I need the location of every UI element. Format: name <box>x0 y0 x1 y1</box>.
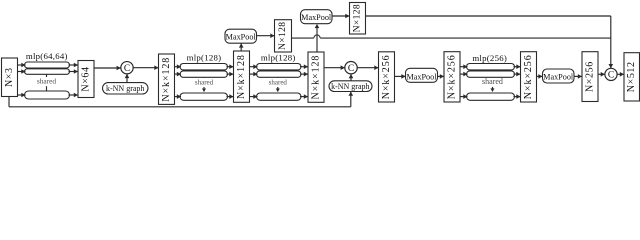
svg-text:C: C <box>608 71 614 81</box>
svg-text:N×3: N×3 <box>4 67 15 87</box>
svg-text:N×k×128: N×k×128 <box>236 54 247 99</box>
svg-text:N×128: N×128 <box>278 22 288 50</box>
svg-text:mlp(128): mlp(128) <box>187 53 222 63</box>
svg-text:k-NN graph: k-NN graph <box>331 82 369 91</box>
svg-text:k-NN graph: k-NN graph <box>106 84 144 93</box>
svg-text:N×k×256: N×k×256 <box>381 54 392 99</box>
svg-text:shared: shared <box>37 77 57 86</box>
svg-text:MaxPool: MaxPool <box>406 72 437 81</box>
svg-text:N×k×256: N×k×256 <box>523 54 534 99</box>
svg-text:mlp(64,64): mlp(64,64) <box>26 51 68 61</box>
svg-text:N×k×128: N×k×128 <box>161 57 172 102</box>
svg-text:N×k×128: N×k×128 <box>311 55 322 100</box>
svg-text:C: C <box>124 64 130 74</box>
svg-text:N×512: N×512 <box>626 61 637 92</box>
svg-text:mlp(128): mlp(128) <box>261 53 296 63</box>
svg-text:N×128: N×128 <box>353 4 363 32</box>
svg-text:shared: shared <box>482 77 503 86</box>
svg-text:N×64: N×64 <box>81 66 92 91</box>
svg-text:mlp(256): mlp(256) <box>472 53 507 63</box>
svg-text:C: C <box>348 64 354 74</box>
svg-text:MaxPool: MaxPool <box>301 13 332 22</box>
svg-text:N×256: N×256 <box>585 61 596 92</box>
svg-text:MaxPool: MaxPool <box>226 33 257 42</box>
svg-text:shared: shared <box>269 78 288 86</box>
svg-text:MaxPool: MaxPool <box>543 73 574 82</box>
svg-text:shared: shared <box>195 78 214 86</box>
svg-text:N×k×256: N×k×256 <box>447 54 458 99</box>
